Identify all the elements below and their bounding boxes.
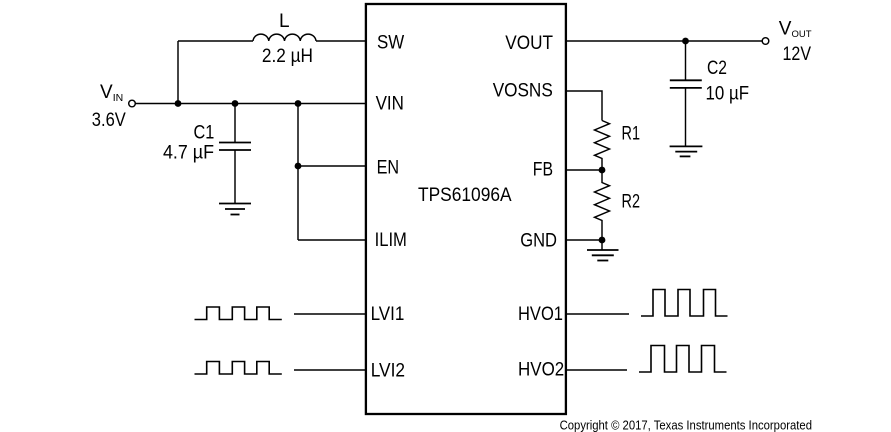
svg-text:HVO2: HVO2 <box>518 359 564 380</box>
svg-text:12V: 12V <box>783 44 812 65</box>
wire VIN horizontal to IC <box>136 103 367 105</box>
wire GND to divider <box>565 239 602 241</box>
svg-text:4.7 µF: 4.7 µF <box>163 143 214 164</box>
svg-text:SW: SW <box>377 33 404 54</box>
junction dot at SW branch on VIN rail <box>175 100 182 107</box>
inductor L <box>253 34 316 41</box>
wire HVO1 from pin <box>565 313 629 315</box>
junction dot at EN <box>295 163 302 170</box>
wire LVI1 to pin <box>294 313 367 315</box>
waveform symbol at LVI1 <box>195 307 282 320</box>
waveform symbol at HVO2 <box>639 346 727 373</box>
resistor R1 <box>595 121 610 171</box>
svg-text:VIN: VIN <box>376 93 404 114</box>
op-amp U1 TPS61096A IC body <box>366 4 566 414</box>
svg-text:C2: C2 <box>707 58 727 79</box>
svg-text:GND: GND <box>520 230 557 251</box>
wire vertical EN/ILIM branch <box>297 104 299 241</box>
ground below C1 <box>219 204 251 215</box>
svg-text:C1: C1 <box>194 122 215 143</box>
resistor R2 <box>595 170 610 240</box>
svg-text:VOSNS: VOSNS <box>493 81 553 102</box>
junction dot at C2 on VOUT rail <box>682 38 689 45</box>
svg-text:LVI1: LVI1 <box>371 304 405 325</box>
svg-text:R1: R1 <box>622 123 641 144</box>
wire vertical from VIN node up to SW branch <box>177 41 179 104</box>
svg-text:TPS61096A: TPS61096A <box>418 185 512 206</box>
svg-text:ILIM: ILIM <box>375 230 407 251</box>
svg-text:3.6V: 3.6V <box>92 110 126 131</box>
waveform symbol at LVI2 <box>195 362 282 375</box>
wire VOUT to output port <box>565 40 762 42</box>
terminal VOUT output port <box>762 38 769 45</box>
svg-text:FB: FB <box>533 159 553 180</box>
svg-text:EN: EN <box>377 158 400 179</box>
svg-text:2.2 µH: 2.2 µH <box>262 46 313 67</box>
junction dot at C1 on VIN rail <box>232 100 239 107</box>
wire EN to pin <box>298 165 367 167</box>
svg-text:VOUT: VOUT <box>505 33 553 54</box>
terminal VIN input port <box>129 100 136 107</box>
wire LVI2 to pin <box>294 369 367 371</box>
svg-text:10 µF: 10 µF <box>706 84 750 105</box>
svg-text:L: L <box>279 11 290 32</box>
svg-text:HVO1: HVO1 <box>518 304 563 325</box>
capacitor C2 <box>670 41 702 146</box>
junction dot at GND <box>599 237 606 244</box>
wire SW branch left segment <box>178 40 253 42</box>
wire SW branch right segment to pin SW <box>316 40 367 42</box>
waveform symbol at HVO1 <box>641 290 728 317</box>
wire HVO2 from pin <box>565 369 627 371</box>
ground below divider <box>587 240 619 261</box>
junction dot at EN branch on VIN rail <box>295 100 302 107</box>
svg-text:LVI2: LVI2 <box>371 360 405 381</box>
ground below C2 <box>670 146 703 156</box>
svg-text:Copyright © 2017, Texas Instru: Copyright © 2017, Texas Instruments Inco… <box>560 418 812 432</box>
capacitor C1 <box>219 104 251 204</box>
wire VOSNS to divider <box>565 91 602 121</box>
wire FB to divider <box>565 169 602 171</box>
svg-text:R2: R2 <box>622 192 641 213</box>
junction dot at FB <box>599 167 606 174</box>
wire ILIM to pin <box>298 239 367 241</box>
